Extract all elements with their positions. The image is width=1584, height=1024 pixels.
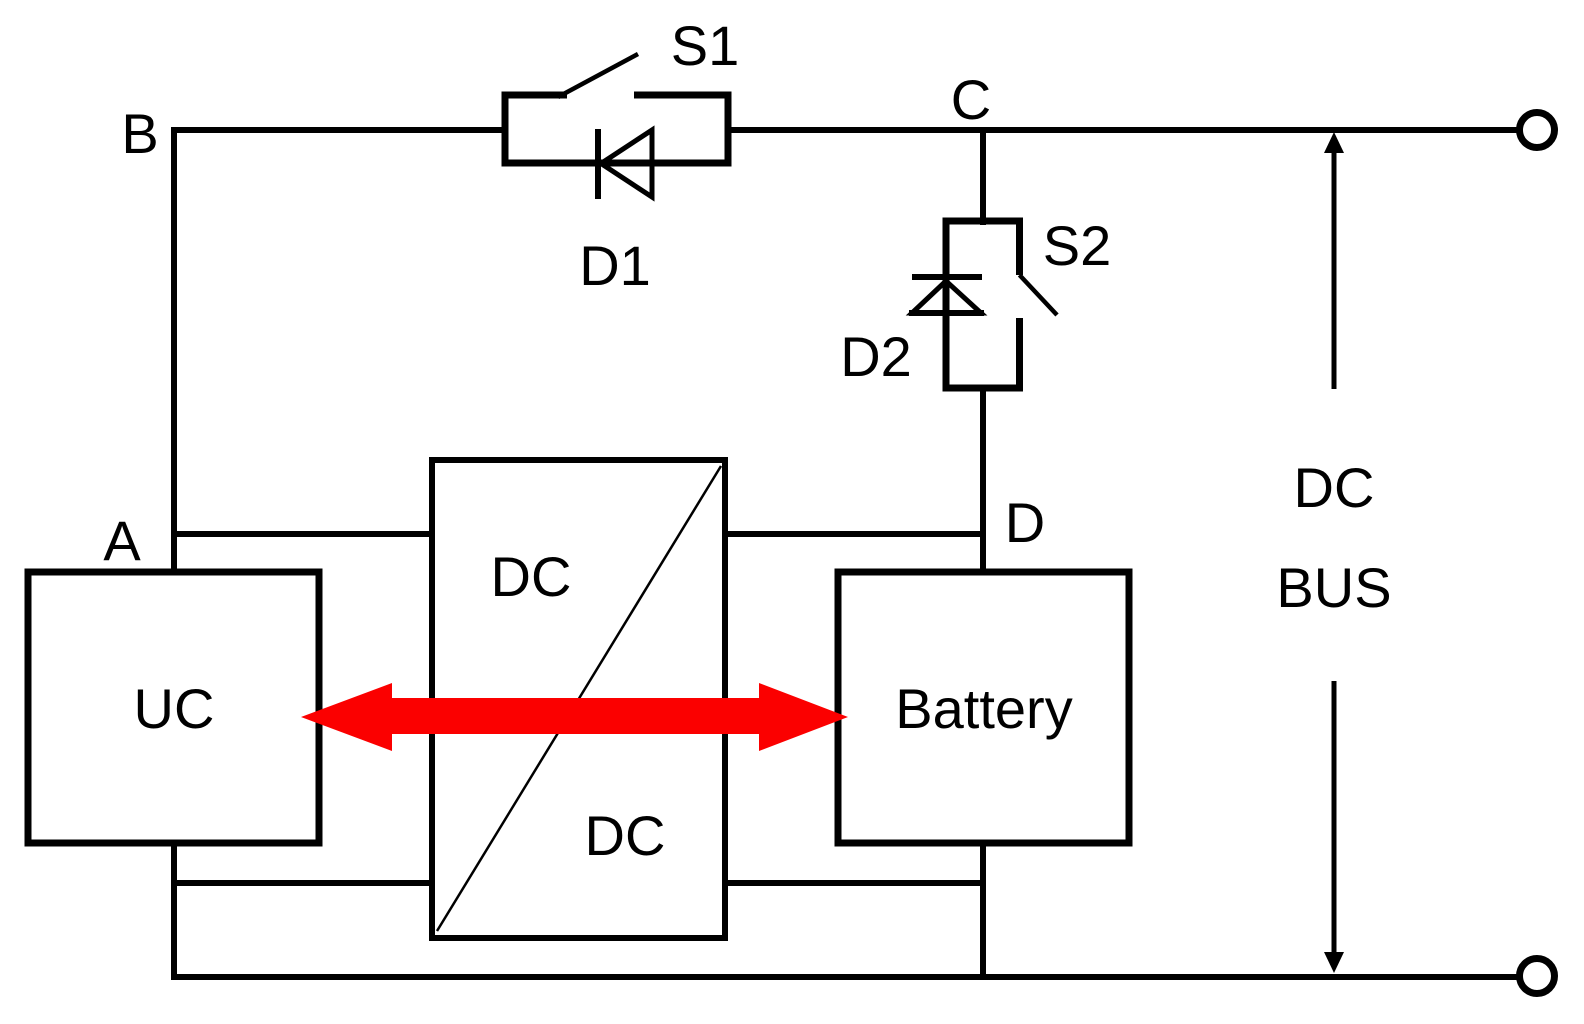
DC BUS dimension arrow (lower, pointing down) [1324,681,1344,973]
svg-text:DC: DC [585,804,666,867]
DC/DC converter box [432,460,725,938]
svg-text:A: A [103,509,141,572]
wire: battery bottom down to bottom bus [980,843,986,980]
svg-text:D1: D1 [579,234,651,297]
DC BUS dimension arrow (upper, pointing up) [1324,132,1344,389]
UC box [28,572,319,843]
wire: node A to DC/DC converter top port [171,531,432,537]
svg-text:DC: DC [491,545,572,608]
wire top bus: S1/D1 block to DC bus terminal [725,127,1520,133]
terminal: DC bus positive [1520,113,1555,148]
wire top bus: node B to S1/D1 block [171,127,508,133]
wire: node C down to D2/S2 block [980,130,986,225]
D2/S2 block top rail [943,218,1024,225]
wire: S1/D1 block bottom rail [502,160,732,167]
wire: DC/DC converter top port to node D [725,531,983,537]
svg-text:D2: D2 [840,325,912,388]
terminal: DC bus negative [1520,959,1555,994]
switch S1 [502,54,732,97]
wire: D2/S2 block left branch [943,218,950,392]
svg-text:S2: S2 [1043,214,1112,277]
svg-text:D: D [1005,491,1045,554]
svg-text:C: C [951,68,991,131]
DC/DC diagonal divider [437,466,721,931]
wire: UC bottom down to bottom bus [171,843,177,980]
svg-text:B: B [121,102,158,165]
wire: D2/S2 block down to node D [980,388,986,575]
battery box [838,572,1129,843]
wire: node B vertical down to UC [171,127,177,575]
svg-text:S1: S1 [671,14,740,77]
wire bottom bus [171,974,1519,980]
bidirectional power flow arrow (UC ↔ Battery) [301,683,848,751]
diode D2 [909,277,984,313]
diode D1 [598,129,652,199]
S1/D1 block left bar [502,92,509,167]
svg-text:BUS: BUS [1276,556,1391,619]
svg-text:UC: UC [134,677,215,740]
wire: UC to DC/DC converter bottom port [171,880,432,886]
switch S2 [1020,218,1058,392]
svg-text:Battery: Battery [895,677,1072,740]
wire: DC/DC converter bottom port to battery [725,880,984,886]
svg-text:DC: DC [1294,456,1375,519]
S1/D1 block right bar [725,92,732,167]
D2/S2 block bottom rail [943,385,1024,392]
